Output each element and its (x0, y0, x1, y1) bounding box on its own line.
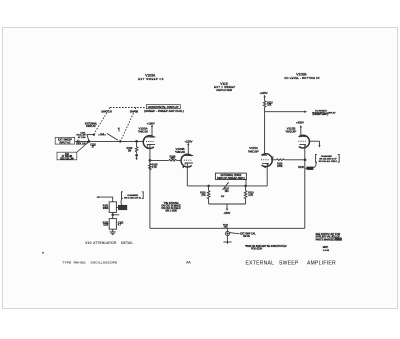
svg-text:EXT SWEEP CF: EXT SWEEP CF (138, 77, 164, 81)
svg-text:470: 470 (171, 158, 176, 161)
svg-text:4.7K: 4.7K (248, 195, 253, 197)
svg-text:(SWEEP AMPL): (SWEEP AMPL) (313, 113, 329, 116)
svg-text:½6DJ8*: ½6DJ8* (248, 149, 260, 153)
svg-text:27K: 27K (201, 195, 206, 197)
svg-text:4.7K: 4.7K (152, 166, 157, 169)
svg-text:+225V: +225V (185, 139, 193, 143)
svg-text:FOR 6DJ8: FOR 6DJ8 (251, 249, 263, 251)
svg-text:EXTERNAL: EXTERNAL (246, 260, 275, 266)
svg-text:DISPLAY: DISPLAY (86, 125, 96, 128)
svg-text:V103A: V103A (145, 73, 156, 77)
svg-text:OSCILLOSCOPE: OSCILLOSCOPE (91, 260, 118, 264)
svg-text:SWITCH: SWITCH (101, 110, 112, 114)
svg-text:AMPLIFIER: AMPLIFIER (307, 260, 336, 266)
svg-text:ON 3A: ON 3A (243, 235, 250, 238)
svg-text:SEE BELOW: SEE BELOW (60, 159, 74, 161)
svg-text:270K: 270K (277, 166, 283, 168)
svg-text:S/N 1-1000: S/N 1-1000 (165, 211, 177, 213)
svg-text:SN 100-ALL FIELD: SN 100-ALL FIELD (319, 160, 338, 163)
svg-text:+300V: +300V (296, 121, 304, 125)
svg-text:(SWEEP - SWEEP AMP DUAL): (SWEEP - SWEEP AMP DUAL) (144, 109, 184, 113)
svg-text:R120: R120 (298, 167, 304, 169)
svg-text:SWEEP: SWEEP (279, 260, 299, 266)
svg-text:15K: 15K (224, 227, 228, 229)
svg-text:HORIZONTAL DISPLAY: HORIZONTAL DISPLAY (148, 105, 179, 109)
svg-text:AT 10%: AT 10% (78, 136, 86, 139)
svg-text:-150V: -150V (223, 211, 230, 215)
svg-text:100K 1W: 100K 1W (76, 143, 86, 145)
svg-text:PARTS MARKED: PARTS MARKED (316, 238, 335, 241)
svg-text:+225V: +225V (260, 91, 268, 95)
svg-text:TYPE: TYPE (62, 260, 71, 264)
svg-text:RM-561: RM-561 (74, 260, 86, 264)
svg-text:900K: 900K (103, 208, 109, 210)
svg-text:ATTENUATOR: ATTENUATOR (93, 241, 117, 245)
svg-text:1M: 1M (128, 149, 131, 152)
svg-text:1-4-63: 1-4-63 (323, 250, 330, 252)
svg-text:½6DJ8*: ½6DJ8* (286, 130, 298, 134)
svg-text:AMPLIFIER: AMPLIFIER (216, 88, 232, 92)
svg-text:SW-9B: SW-9B (130, 110, 139, 114)
svg-text:MRH: MRH (323, 246, 329, 249)
svg-text:X10: X10 (85, 241, 91, 245)
svg-text:INPUT AC: INPUT AC (60, 141, 71, 144)
svg-text:½6DJ8: ½6DJ8 (175, 150, 185, 154)
svg-text:+100V: +100V (147, 122, 155, 126)
svg-text:10K: 10K (267, 105, 272, 107)
svg-text:*4823 OR 8426 MAY BE SUBSTITUT: *4823 OR 8426 MAY BE SUBSTITUTED (245, 245, 287, 248)
svg-text:111K: 111K (103, 225, 108, 227)
svg-text:DETAIL: DETAIL (121, 241, 133, 245)
svg-text:DC LEVEL - BOTTOM CF: DC LEVEL - BOTTOM CF (284, 76, 320, 80)
svg-text:SN 8-1010-UP AL: SN 8-1010-UP AL (124, 196, 142, 199)
svg-text:DISPLAY (SWEEP AMPL): DISPLAY (SWEEP AMPL) (217, 177, 245, 180)
svg-text:½6DJ8: ½6DJ8 (138, 130, 148, 134)
